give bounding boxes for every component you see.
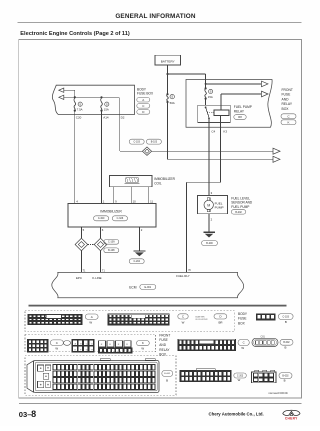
svg-text:S: S [171,95,173,99]
svg-text:C: C [243,341,245,345]
svg-text:C-320: C-320 [98,217,105,220]
svg-text:B-202: B-202 [235,211,242,214]
svg-text:IMMOBILIZER: IMMOBILIZER [100,209,122,213]
svg-text:A: A [142,98,144,102]
svg-text:BATTERY: BATTERY [161,59,175,63]
svg-text:C-204: C-204 [133,260,140,263]
svg-text:FRONT: FRONT [282,88,293,92]
svg-text:FUSE: FUSE [159,338,168,342]
svg-text:BR: BR [218,320,222,324]
svg-text:50A: 50A [170,101,175,105]
svg-text:BOX: BOX [282,107,290,111]
svg-text:G: G [86,349,88,351]
svg-text:FUSE: FUSE [282,93,292,97]
svg-text:B-002: B-002 [283,342,290,344]
svg-text:S: S [79,102,81,106]
svg-text:R8: R8 [238,115,242,119]
svg-text:BOX: BOX [238,321,246,325]
svg-text:W: W [141,346,144,350]
svg-text:B: B [285,320,287,324]
svg-text:GENERAL INFORMATION: GENERAL INFORMATION [115,13,196,20]
svg-text:FUSE: FUSE [238,317,247,321]
svg-text:W: W [55,346,58,350]
svg-text:B-108: B-108 [108,249,115,252]
svg-text:PUMP: PUMP [215,205,224,209]
svg-text:B: B [284,379,286,383]
svg-text:IMMOBILIZER: IMMOBILIZER [154,177,175,181]
svg-text:03–8: 03–8 [19,409,36,419]
svg-text:B: B [285,346,287,350]
svg-text:11: 11 [150,199,153,203]
svg-text:W: W [238,378,241,382]
svg-text:AND: AND [159,343,166,347]
svg-text:C-203: C-203 [237,375,244,377]
svg-text:xiamae030043i: xiamae030043i [268,391,288,395]
svg-text:D2: D2 [121,116,125,120]
svg-text:B: B [166,378,168,382]
svg-text:AND: AND [282,97,290,101]
svg-text:C4: C4 [211,129,215,133]
svg-text:B-002: B-002 [282,375,289,377]
svg-text:FUEL LEVEL: FUEL LEVEL [231,196,250,200]
svg-text:FRONT: FRONT [159,333,170,337]
svg-text:7.5A: 7.5A [77,107,83,111]
svg-text:15A: 15A [208,95,213,99]
svg-text:C20: C20 [76,116,82,120]
svg-text:Chery Automobile Co., Ltd.: Chery Automobile Co., Ltd. [209,412,264,417]
svg-text:ECM: ECM [129,286,137,290]
svg-text:W: W [182,320,185,324]
svg-text:IN CLUSTER: IN CLUSTER [196,319,208,321]
svg-text:S: S [106,102,108,106]
svg-text:S: S [210,90,212,94]
svg-text:K-LINE: K-LINE [92,276,101,280]
svg-text:Electronic Engine Controls (Pa: Electronic Engine Controls (Page 2 of 11… [20,31,130,37]
svg-text:W: W [241,346,244,350]
svg-text:K: K [287,120,289,124]
svg-text:C-103: C-103 [282,315,289,318]
svg-text:K: K [142,341,144,345]
svg-text:10: 10 [133,199,137,203]
svg-text:RELAY: RELAY [159,348,170,352]
svg-text:K3: K3 [223,129,227,133]
svg-text:FUEL PUMP: FUEL PUMP [231,205,249,209]
svg-text:15A: 15A [104,107,109,111]
svg-text:E-001: E-001 [144,286,151,289]
svg-text:EPC: EPC [76,276,82,280]
svg-text:B-103: B-103 [151,141,158,144]
svg-text:COIL: COIL [154,181,162,185]
svg-text:C-109: C-109 [108,241,115,244]
svg-text:C-103: C-103 [133,141,140,144]
svg-text:M: M [207,203,210,207]
svg-text:FUSE BOX: FUSE BOX [137,92,154,96]
svg-text:CHERY: CHERY [285,417,298,421]
svg-text:A: A [91,315,93,319]
svg-text:SENSOR AND: SENSOR AND [231,201,253,205]
svg-text:RELAY: RELAY [234,109,245,113]
svg-text:E-001: E-001 [164,373,171,375]
svg-text:W: W [89,321,92,325]
svg-text:B-200: B-200 [206,242,213,245]
svg-text:BODY: BODY [238,312,248,316]
svg-text:C-326: C-326 [117,217,124,220]
svg-text:A14: A14 [103,116,109,120]
svg-text:RELAY: RELAY [282,102,293,106]
svg-text:FUEL RLY: FUEL RLY [176,274,190,278]
